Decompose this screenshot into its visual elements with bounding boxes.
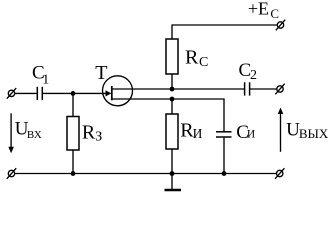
- capacitor CI: [216, 132, 232, 137]
- input terminal top-left: [7, 88, 16, 99]
- bottom rail wire: [15, 173, 277, 175]
- transistor T circle: [103, 76, 133, 106]
- wire RI to bottom rail: [171, 149, 173, 174]
- top rail wire: [172, 24, 277, 26]
- transistor gate arrow: [106, 90, 112, 96]
- node CI bottom: [222, 171, 227, 176]
- wire CI to bottom rail: [223, 137, 225, 174]
- arrow Uvx: [8, 113, 14, 153]
- ground: [165, 174, 182, 191]
- node drain: [170, 87, 175, 92]
- node ground junction: [170, 171, 175, 176]
- wire node to R3: [72, 93, 74, 116]
- node R3 bottom: [71, 171, 76, 176]
- terminal +EC: [276, 20, 285, 31]
- wire R3 to bottom rail: [72, 150, 74, 174]
- resistor R3: [67, 117, 79, 151]
- capacitor C1: [37, 87, 42, 100]
- wire input to C1: [15, 92, 37, 94]
- wire RC to top rail: [171, 25, 173, 40]
- arrow Uvyh: [278, 108, 284, 152]
- resistor RI: [166, 114, 178, 149]
- wire C1 to gate: [43, 92, 107, 94]
- terminal bottom-right: [275, 168, 284, 179]
- transistor channel bar: [111, 86, 113, 100]
- wire source node to RI: [171, 99, 173, 114]
- wire drain node to RC: [171, 74, 173, 89]
- node gate junction: [71, 91, 76, 96]
- output terminal top-right: [275, 84, 284, 95]
- resistor RC: [166, 39, 178, 74]
- wire C2 to output terminal: [250, 88, 277, 90]
- transistor drain lead / drain wire to C2: [112, 88, 244, 90]
- transistor source lead / source wire: [112, 99, 224, 132]
- terminal bottom-left: [7, 168, 16, 179]
- capacitor C2: [245, 82, 250, 95]
- node source: [170, 97, 175, 102]
